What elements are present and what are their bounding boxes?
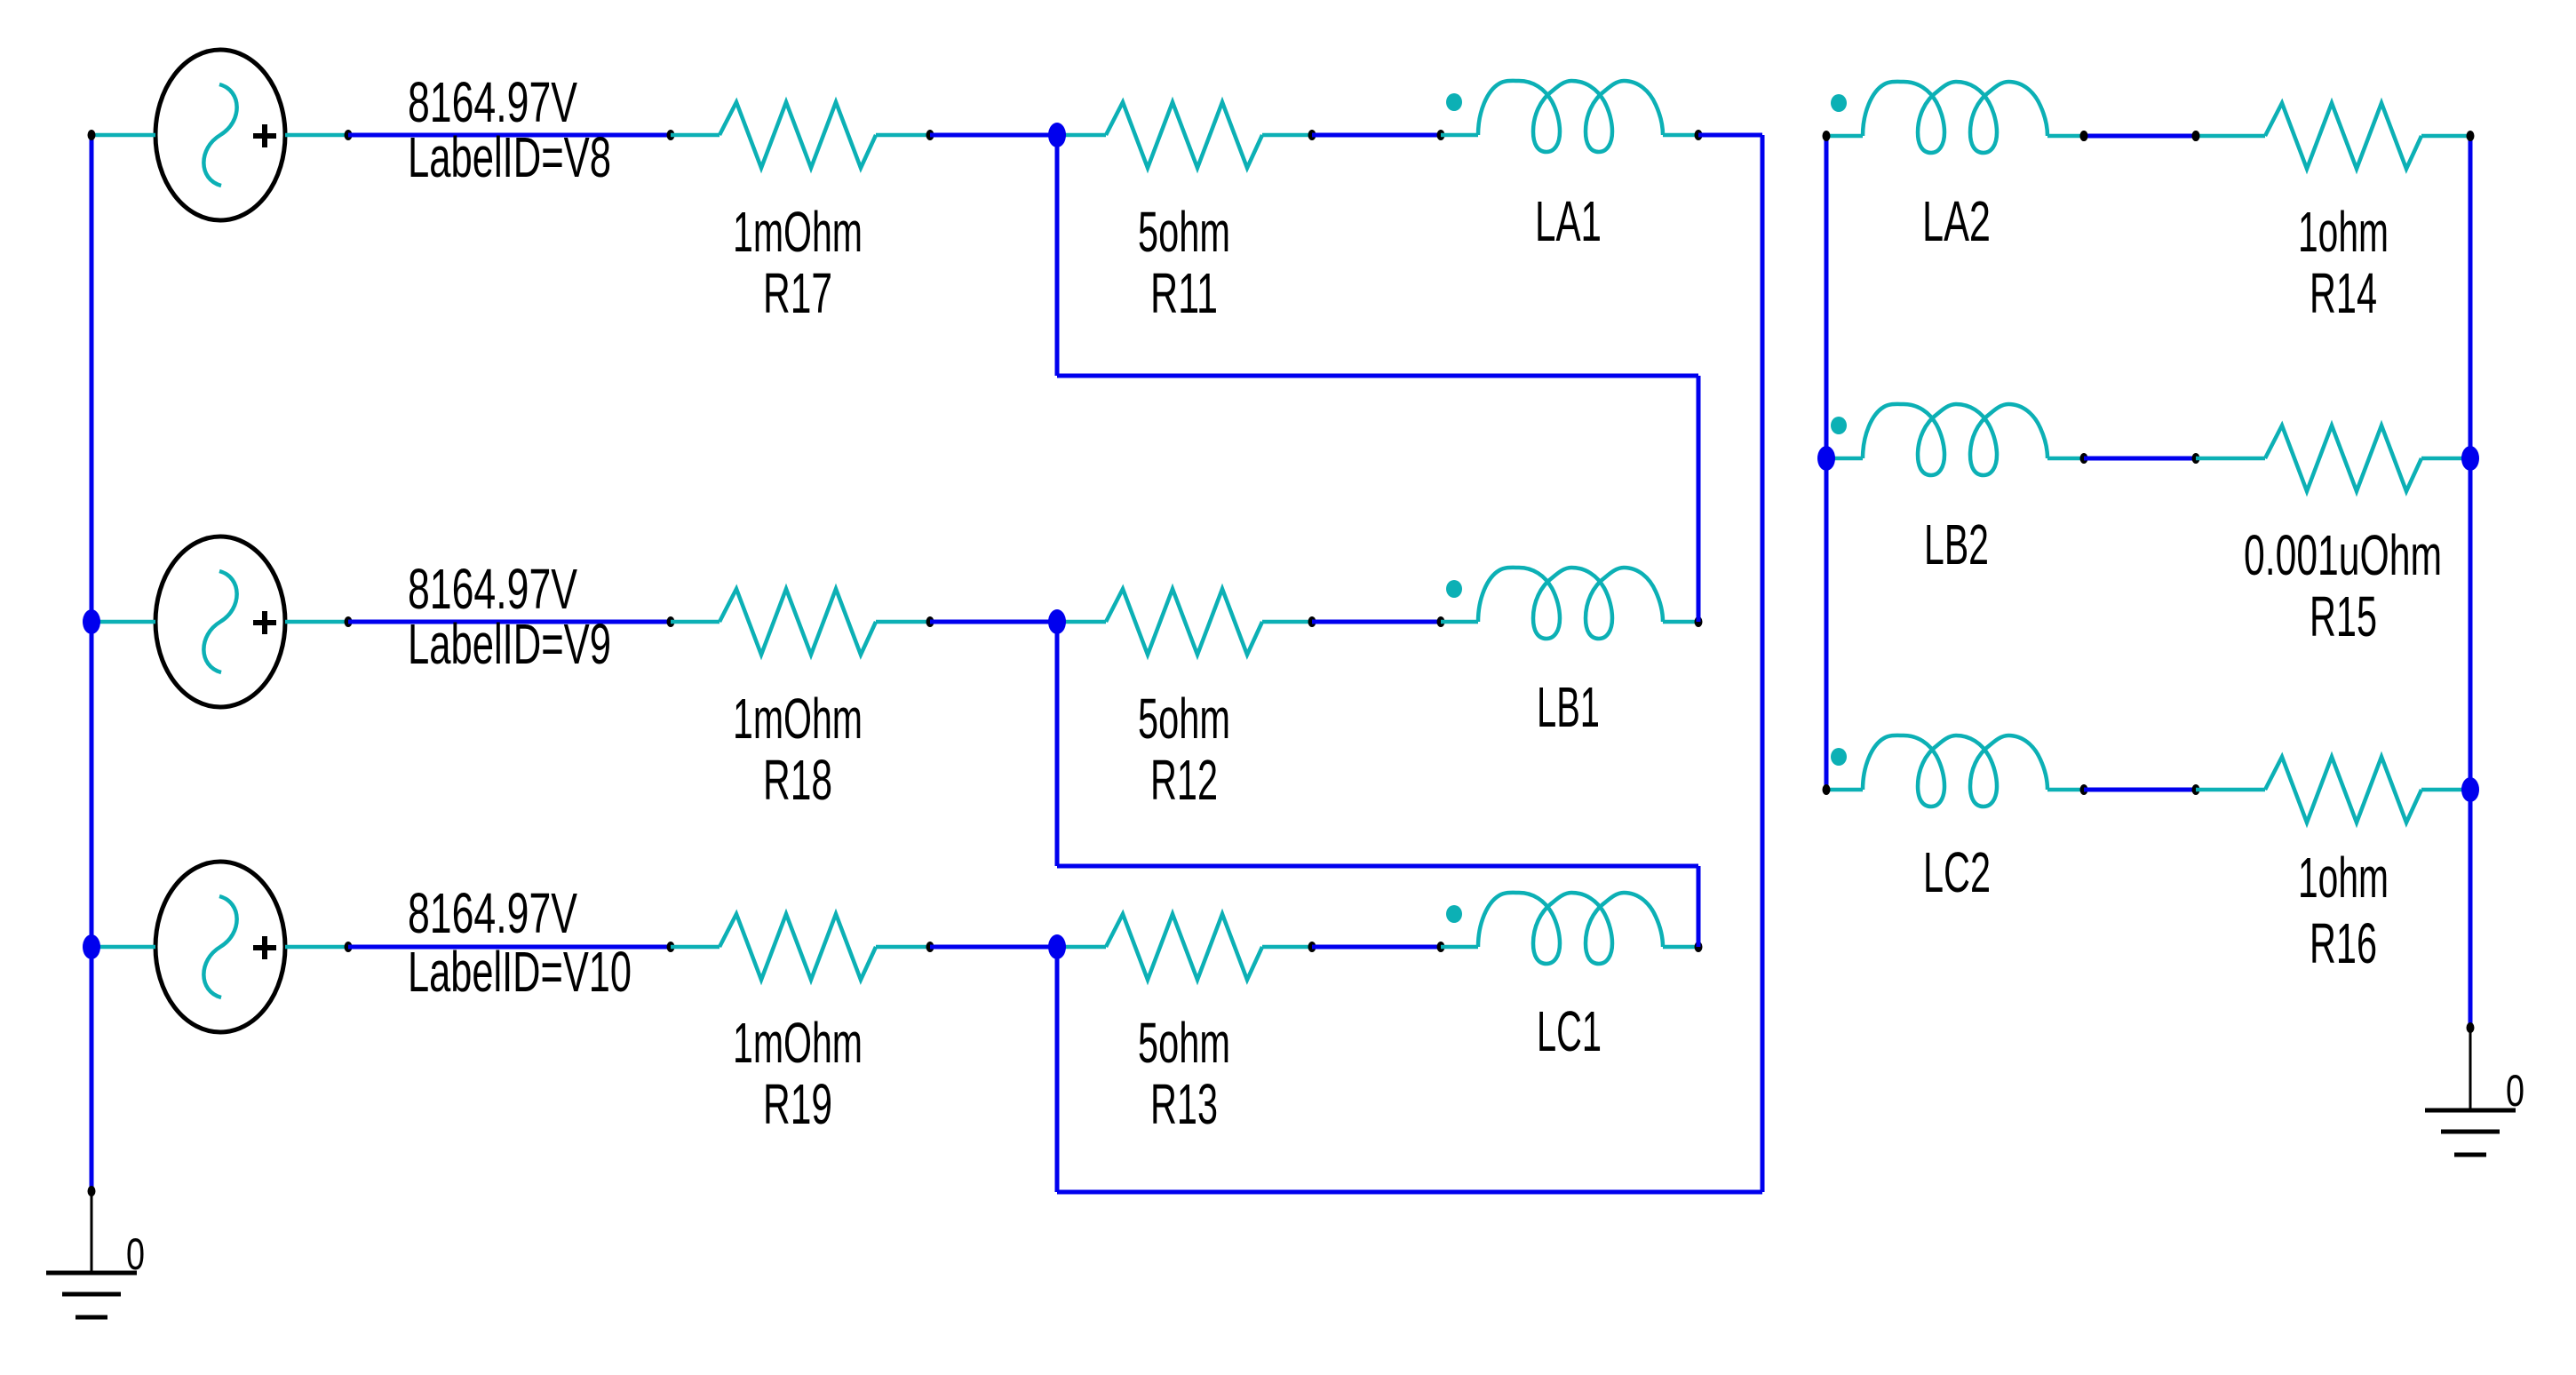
pin dot: LA1 right [1695, 130, 1703, 140]
wire [2047, 457, 2084, 461]
svg-text:5ohm: 5ohm [1138, 200, 1230, 264]
ground (left, net 0) [46, 1191, 137, 1317]
wire: source output stub [285, 620, 348, 624]
pin dot: LA2 right [2080, 131, 2088, 141]
wire: link down to LC1 output [1697, 866, 1701, 947]
pin dot: R17 right [926, 130, 934, 140]
svg-text:LabelID=V10: LabelID=V10 [408, 940, 632, 1004]
svg-text:LB1: LB1 [1537, 675, 1600, 739]
wire: LA2 to R14 [2084, 134, 2196, 139]
svg-text:R14: R14 [2310, 261, 2377, 325]
svg-text:0: 0 [2506, 1066, 2524, 1116]
wire [1826, 134, 1863, 139]
pin dot [2080, 131, 2088, 141]
wire: LA1 output [1698, 133, 1762, 138]
junction: secondary left rail / LB2 [1817, 446, 1835, 471]
AC voltage source V8 [155, 50, 285, 220]
junction: left rail / V9 [83, 609, 100, 634]
wire: R12 to LB1 [1312, 620, 1441, 624]
pin dot: source + terminal [345, 942, 353, 952]
svg-text:1mOhm: 1mOhm [733, 687, 863, 751]
wire: R13 to LC1 [1312, 945, 1441, 950]
pin dot: LB2 right [2080, 453, 2088, 464]
inductor LA1 [1446, 81, 1663, 152]
pin dot: R12 right [1308, 616, 1316, 627]
AC voltage source V10 [155, 862, 285, 1032]
pin dot: source + terminal [345, 130, 353, 140]
wire [1262, 945, 1312, 950]
svg-text:LabelID=V9: LabelID=V9 [408, 612, 611, 676]
resistor R17 [720, 102, 876, 168]
wire: return up to node C1 [1055, 947, 1060, 1192]
inductor LA2 [1831, 82, 2047, 153]
wire: source to R19 [348, 945, 671, 950]
ground (right, net 0) [2425, 1028, 2516, 1155]
wire: source output stub [285, 133, 348, 138]
junction: left rail / V10 [83, 934, 100, 959]
inductor LC1 [1446, 893, 1663, 964]
wire: link down to LB1 output [1697, 376, 1701, 622]
pin dot: LC1 left [1437, 942, 1445, 952]
wire [1057, 133, 1106, 138]
wire [2047, 788, 2084, 792]
wire [2196, 134, 2265, 139]
pin dot: R18 right [926, 616, 934, 627]
node A1 junction (R17/R11) [1048, 123, 1066, 147]
wire: secondary left rail [1825, 136, 1829, 790]
pin dot: R18 left [667, 616, 675, 627]
pin dot: LA2 left terminal [1823, 131, 1831, 141]
pin dot: LC1 right [1695, 942, 1703, 952]
svg-text:0: 0 [126, 1229, 145, 1279]
wire: source to R17 [348, 133, 671, 138]
svg-text:LA1: LA1 [1535, 189, 1602, 253]
svg-text:LA2: LA2 [1922, 189, 1991, 253]
pin dot: R16 left [2192, 784, 2200, 795]
wire [2196, 457, 2265, 461]
svg-text:R19: R19 [763, 1072, 832, 1136]
node B1 junction (R18/R12) [1048, 609, 1066, 634]
wire: rail to C-phase source [91, 945, 155, 950]
resistor R18 [720, 589, 876, 655]
svg-text:R13: R13 [1150, 1072, 1218, 1136]
pin dot: R11 right [1308, 130, 1316, 140]
AC voltage source V9 [155, 536, 285, 707]
svg-text:5ohm: 5ohm [1138, 1011, 1230, 1075]
wire [2047, 134, 2084, 139]
wire: node B1 to LC1 link [1057, 864, 1698, 869]
wire: R19 to node [930, 945, 1057, 950]
pin dot: LB1 right [1695, 616, 1703, 627]
wire: LB2 to R15 [2084, 457, 2196, 461]
wire [1826, 788, 1863, 792]
wire [1057, 620, 1106, 624]
wire: source to R18 [348, 620, 671, 624]
resistor R16 [2265, 757, 2421, 823]
wire [1663, 133, 1698, 138]
pin dot: LC2 right [2080, 784, 2088, 795]
wire: left rail (sources common) [90, 135, 94, 1191]
wire [2421, 457, 2470, 461]
wire [876, 945, 930, 950]
pin dot: R14 right terminal [2467, 131, 2475, 141]
wire: source output stub [285, 945, 348, 950]
resistor R19 [720, 914, 876, 980]
svg-text:1ohm: 1ohm [2298, 846, 2389, 910]
pin dot: R14 left [2192, 131, 2200, 141]
node C1 junction (R19/R13) [1048, 934, 1066, 959]
wire: secondary right rail [2469, 136, 2473, 1028]
pin dot: R13 right [1308, 942, 1316, 952]
wire: node A1 to LB1 link [1057, 374, 1698, 378]
wire [671, 133, 720, 138]
svg-text:1mOhm: 1mOhm [733, 1011, 863, 1075]
svg-text:8164.97V: 8164.97V [408, 881, 577, 945]
svg-text:R15: R15 [2310, 584, 2377, 648]
pin dot: LA1 left [1437, 130, 1445, 140]
resistor R14 [2265, 103, 2421, 169]
svg-text:LB2: LB2 [1924, 513, 1989, 576]
svg-text:R18: R18 [763, 748, 832, 812]
inductor LB1 [1446, 568, 1663, 639]
wire [1441, 133, 1478, 138]
junction: secondary right rail / R15 [2461, 446, 2479, 471]
wire: R11 to LA1 [1312, 133, 1441, 138]
pin dot [2192, 131, 2200, 141]
pin dot: R19 right [926, 942, 934, 952]
wire: LC2 to R16 [2084, 788, 2196, 792]
svg-text:R17: R17 [763, 261, 832, 325]
wire [876, 133, 930, 138]
pin dot: ground connection [2467, 1022, 2475, 1033]
wire [1441, 620, 1478, 624]
pin dot: LB1 left [1437, 616, 1445, 627]
wire [1441, 945, 1478, 950]
wire [876, 620, 930, 624]
svg-text:5ohm: 5ohm [1138, 687, 1230, 751]
wire [2421, 134, 2470, 139]
resistor R15 [2265, 425, 2421, 491]
junction: secondary right rail / R16 [2461, 777, 2479, 802]
wire [1663, 945, 1698, 950]
wire [1057, 945, 1106, 950]
svg-text:LabelID=V8: LabelID=V8 [408, 125, 611, 189]
wire [1262, 620, 1312, 624]
svg-text:R16: R16 [2310, 911, 2377, 975]
wire: LA1 output drop [1761, 135, 1765, 1192]
svg-text:R11: R11 [1150, 261, 1218, 325]
wire: rail to B-phase source [91, 620, 155, 624]
wire: rail to A-phase source [91, 133, 155, 138]
wire: bottom return [1057, 1190, 1762, 1195]
wire [671, 620, 720, 624]
svg-text:LC1: LC1 [1537, 999, 1602, 1063]
svg-text:R12: R12 [1150, 748, 1218, 812]
pin dot: R15 left [2192, 453, 2200, 464]
inductor LB2 [1831, 404, 2047, 475]
resistor R13 [1106, 914, 1262, 980]
svg-text:1ohm: 1ohm [2298, 200, 2389, 264]
resistor R12 [1106, 589, 1262, 655]
wire [2421, 788, 2470, 792]
wire: R18 to node [930, 620, 1057, 624]
pin dot: ground connection [88, 1186, 96, 1196]
wire: R17 to node [930, 133, 1057, 138]
pin dot: R19 left [667, 942, 675, 952]
svg-text:0.001uOhm: 0.001uOhm [2244, 523, 2442, 587]
pin dot: V8 negative terminal [88, 130, 96, 140]
wire [1262, 133, 1312, 138]
wire [1663, 620, 1698, 624]
pin dot: R17 left [667, 130, 675, 140]
wire: node B1 drop [1055, 622, 1060, 866]
wire: node A1 drop [1055, 135, 1060, 376]
svg-text:LC2: LC2 [1923, 840, 1991, 904]
pin dot: source + terminal [345, 616, 353, 627]
pin dot: LC2 left terminal [1823, 784, 1831, 795]
inductor LC2 [1831, 735, 2047, 807]
wire [671, 945, 720, 950]
wire [2196, 788, 2265, 792]
wire [1826, 457, 1863, 461]
svg-text:1mOhm: 1mOhm [733, 200, 863, 264]
resistor R11 [1106, 102, 1262, 168]
